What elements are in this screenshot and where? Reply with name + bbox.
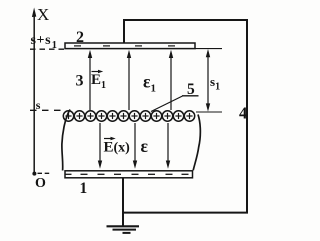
bottom plate (electrode 1) <box>65 171 193 178</box>
dielectric left boundary (wavy) <box>62 110 70 171</box>
dielectric right boundary (wavy) <box>193 115 200 171</box>
X axis arrowhead <box>32 8 36 18</box>
label E(x) vector <box>104 137 131 156</box>
origin dot <box>32 172 36 176</box>
field arrow E1 middle <box>127 50 131 110</box>
svg-text:ε: ε <box>141 136 149 156</box>
dashed line at s+s1 level <box>30 48 64 50</box>
dashed line at s level <box>30 109 64 111</box>
svg-text:O: O <box>35 176 46 191</box>
X axis line <box>33 14 35 174</box>
svg-text:(x): (x) <box>114 141 131 156</box>
s1 dimension reference line bottom <box>196 111 222 113</box>
top plate (electrode 2) <box>65 43 195 49</box>
field arrow E(x) left <box>98 123 102 169</box>
s1 dimension double arrow <box>206 49 210 112</box>
field arrow E1 left <box>88 50 92 110</box>
positive surface charges (circled plus row) <box>63 111 194 121</box>
svg-text:E: E <box>104 140 114 156</box>
field arrow E1 right <box>169 50 173 110</box>
field arrow E(x) middle <box>133 123 137 169</box>
svg-text:X: X <box>37 5 49 24</box>
wire from bottom plate to ground <box>122 178 124 227</box>
ground symbol <box>107 226 140 233</box>
svg-text:3: 3 <box>76 73 84 90</box>
label 5 with leader line <box>151 81 199 112</box>
svg-text:1: 1 <box>80 180 88 197</box>
dashed line at origin level <box>38 172 52 174</box>
wire from top plate to ground loop <box>124 20 247 213</box>
minus charges in bottom plate <box>65 173 189 175</box>
svg-text:4: 4 <box>239 104 247 123</box>
minus charges in top plate <box>74 45 175 47</box>
field arrow E(x) right <box>166 123 170 169</box>
label E1 vector <box>91 70 106 91</box>
s1 dimension reference line top <box>195 48 222 50</box>
